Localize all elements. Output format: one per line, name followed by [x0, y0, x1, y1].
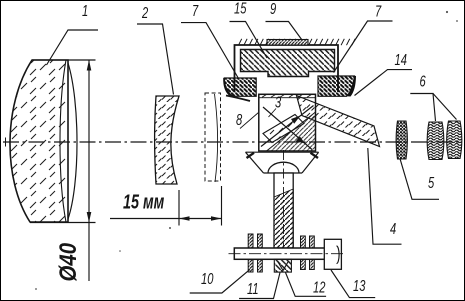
svg-text:3: 3: [275, 94, 282, 111]
housing box: [235, 45, 339, 92]
optical axis: [3, 138, 462, 147]
label 5: [400, 159, 439, 200]
beam ray up-right: [261, 106, 314, 147]
dimension 15 mm: [110, 186, 222, 226]
prism wedge: [267, 112, 316, 151]
magnet block 7 right: [318, 76, 356, 97]
svg-text:4: 4: [390, 220, 396, 237]
lens 2: [155, 96, 180, 184]
label 14: [355, 51, 413, 95]
label 10: [190, 269, 250, 293]
phantom lens profile: [215, 94, 218, 182]
svg-text:7: 7: [192, 2, 199, 19]
label 1: [47, 2, 99, 65]
eyepiece element 6b: [447, 121, 462, 159]
rod axis: [229, 253, 346, 255]
cover strip 9: [267, 40, 308, 46]
vertical axis: [283, 150, 285, 251]
svg-text:10: 10: [201, 270, 214, 287]
svg-text:9: 9: [270, 0, 277, 17]
svg-text:1: 1: [82, 2, 88, 19]
svg-text:Ø40: Ø40: [54, 242, 81, 281]
crescent edge: [226, 96, 250, 102]
svg-text:6: 6: [420, 73, 427, 90]
prism lid strip: [259, 94, 316, 97]
axle rod 10: [234, 248, 331, 259]
bearing block 11/12: [274, 259, 291, 272]
svg-text:5: 5: [428, 174, 435, 191]
label 7 right: [334, 3, 393, 73]
mount cone: [246, 152, 319, 173]
dome pivot: [268, 162, 299, 173]
tilted plate 4: [297, 96, 380, 147]
svg-text:7: 7: [375, 3, 382, 20]
svg-text:13: 13: [353, 277, 366, 294]
dimension Ø40: [30, 60, 96, 281]
label 12: [286, 273, 327, 297]
label 6: [410, 73, 456, 121]
washer pair left: [248, 234, 262, 272]
label 13: [331, 270, 375, 298]
svg-text:15: 15: [234, 0, 247, 17]
svg-text:12: 12: [313, 279, 326, 296]
label 4: [368, 148, 402, 244]
phantom dashed box: [205, 93, 221, 181]
hatch ticks on housing top: [239, 39, 356, 45]
filter 5: [396, 121, 408, 159]
lens 1: [10, 60, 77, 222]
svg-text:11: 11: [247, 280, 259, 297]
svg-text:15 мм: 15 мм: [123, 190, 164, 213]
beam ray down-right: [263, 107, 312, 150]
svg-text:2: 2: [141, 4, 148, 21]
label 2: [137, 4, 174, 94]
label 7 left: [181, 2, 239, 78]
label 15: [230, 0, 268, 58]
magnet block 7 left: [223, 78, 256, 96]
shaft stem: [274, 173, 293, 248]
label 11: [239, 273, 280, 299]
label 9: [266, 0, 303, 40]
end cap 13: [324, 239, 341, 269]
svg-text:8: 8: [236, 111, 243, 128]
washer pair right: [301, 236, 315, 270]
prism housing 3: [259, 94, 316, 151]
label 8: [236, 111, 259, 128]
svg-text:14: 14: [395, 51, 407, 68]
label 3: [269, 94, 282, 117]
corner wedge marks: [247, 153, 319, 158]
yoke 15: [241, 50, 335, 77]
mirror plate 8: [263, 115, 304, 143]
eyepiece element 6a: [427, 122, 444, 160]
